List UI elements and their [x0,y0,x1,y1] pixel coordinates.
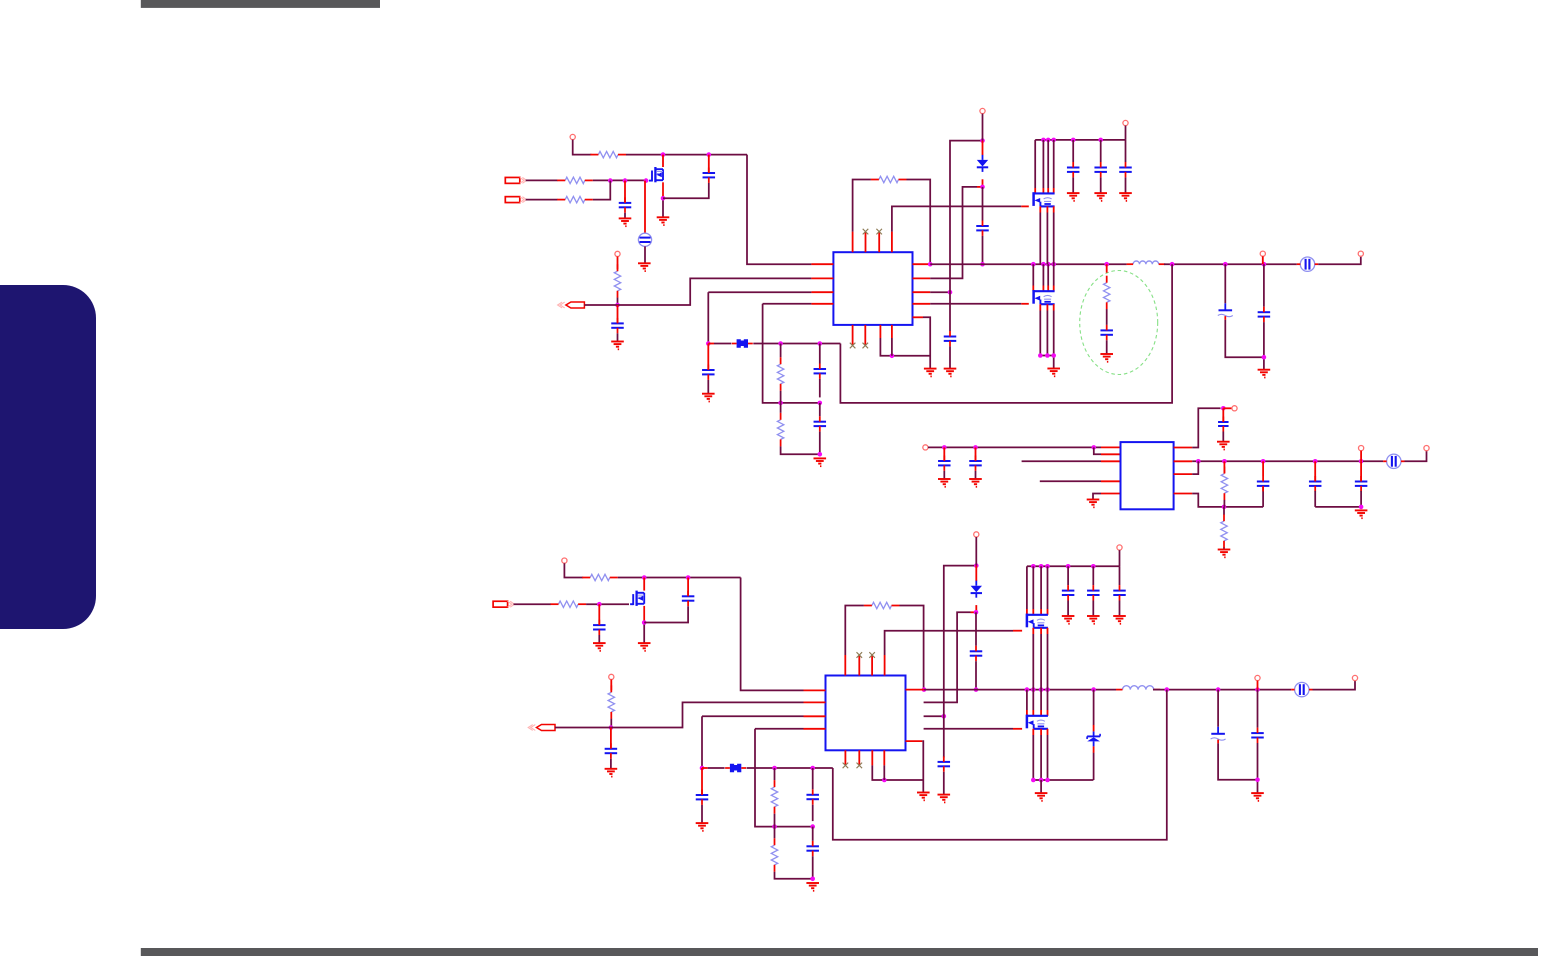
capacitor C6 [1067,167,1080,169]
junction [706,341,711,346]
inductor L1 [1133,261,1159,264]
lead [1026,710,1028,716]
node VOUT3 pin [1352,675,1357,680]
wire [774,814,776,827]
capacitor C5 (boot) [976,225,989,227]
wire [982,187,984,221]
pin stub [871,750,873,765]
diode D1 [977,160,988,167]
wire EN2 [555,702,804,727]
wire [1224,264,1226,303]
lead [1257,681,1259,690]
pin stub [1101,493,1121,495]
pin stub [1174,493,1193,495]
lead [617,257,619,270]
resistor R1 [598,151,618,157]
wire [617,298,619,305]
wire drain bus [1032,690,1034,710]
inductor L2 [1123,686,1154,690]
junction [661,152,666,157]
capacitor C4 [944,336,957,338]
wire HGATE1 [892,206,1021,231]
wire [644,606,688,622]
capacitor C14 [814,421,827,423]
pin stub [844,750,846,765]
drain lead [662,155,664,167]
pin stub [858,655,860,676]
port EN2 [537,725,556,731]
junction [772,766,777,771]
transistor Q2 [1032,192,1035,206]
wire gnd2 rail [1192,494,1263,507]
lead [1032,729,1034,735]
transistor Q6 [1026,715,1029,729]
wire [853,180,871,232]
wire VOUT1 rail [1164,263,1297,265]
wire [708,767,725,769]
pin stub [811,303,833,305]
node VIN3 pin [562,558,567,563]
wire [1119,550,1121,566]
junction [928,262,933,267]
capacitor C1 [619,202,632,204]
cap lead [687,578,689,597]
resistor R14 [872,602,892,608]
junction [980,138,985,143]
node VLDO pin [1232,406,1237,411]
wire VIN1 bus rail [1035,139,1125,141]
junction [1041,138,1046,143]
ground [1087,615,1100,617]
capacitor C13 [814,368,827,370]
wire [1033,779,1093,781]
ground [1251,792,1264,794]
node VIN3C pin [1117,545,1122,550]
wire [975,661,977,689]
ground [806,882,819,884]
wire VOUT2 rail [1192,460,1361,462]
ground [1035,792,1048,794]
wire BOOT2 [924,612,971,702]
wire VIN3 rail [618,577,741,579]
junction [615,303,620,308]
no-connect [843,763,849,769]
resistor R7 [777,364,783,384]
wire [975,537,977,566]
capacitor C20 [593,624,606,626]
junction [818,401,823,406]
junction [1046,138,1051,143]
node VOUT3B pin [1255,675,1260,680]
wire drain bus [1040,566,1042,609]
wire source bus [1040,735,1042,780]
ground [1258,369,1271,371]
wire [1125,177,1127,193]
lead [943,447,945,461]
junction [661,196,666,201]
wire [1106,309,1108,325]
drain lead [643,578,645,591]
resistor R4 [614,271,620,291]
wire [775,872,813,879]
ground [593,642,606,644]
ground [917,792,930,794]
op-amp U3 (PWM controller) [826,676,906,751]
ground [1100,353,1113,355]
op-amp U1 (PWM controller) [833,252,912,325]
wire [1072,140,1074,162]
wire FB1 sense [840,264,1172,403]
lead [977,186,983,188]
pin stub [883,750,885,765]
wire SW1 rail [930,263,1126,265]
ground [969,478,982,480]
lead [982,141,984,155]
junction [1045,687,1050,692]
wire [610,719,612,728]
wire source bus [1053,311,1055,356]
capacitor C2 [703,172,716,174]
pin lead [624,181,626,203]
wire source bus [1047,634,1049,690]
node VIN1C pin [1123,120,1128,125]
junction [1046,262,1051,267]
node VIN2 pin [923,445,928,450]
port P1 [505,177,520,183]
junction [609,725,614,730]
wire [644,246,646,263]
ground [611,341,624,343]
wire [1094,447,1101,454]
junction [1031,778,1036,783]
pin stub [858,750,860,765]
pin stub [884,655,886,676]
resistor R15 [771,787,777,807]
wire drain bus [1047,140,1049,188]
wire [598,635,600,643]
capacitor C28 (bulk) [1211,733,1225,735]
lead [1053,188,1055,193]
pin stub [804,689,826,691]
junction [890,354,895,359]
pin stub [913,263,931,265]
junction [1262,355,1267,360]
junction [1221,406,1226,411]
wire [1217,690,1219,727]
wire [949,346,951,368]
junction [1041,262,1046,267]
junction [608,178,613,183]
junction [980,262,985,267]
resistor R6 (snubber) [1104,283,1110,303]
junction [1165,687,1170,692]
capacitor C21 [682,595,695,597]
port P2 [505,197,520,203]
wire [701,716,703,768]
lead [1042,188,1044,193]
junction [1104,262,1109,267]
wire [526,179,558,181]
capacitor C19 [1309,481,1322,483]
wire [1092,566,1094,585]
wire [907,180,931,265]
lead [1262,256,1264,264]
capacitor C8 [1119,167,1132,169]
wire [1119,601,1121,617]
wire [707,380,709,394]
lead [1047,729,1049,735]
wire [774,768,776,780]
lead [1039,206,1041,212]
pin stub [906,740,923,742]
resistor R8 [777,420,783,440]
capacitor C32 [806,845,819,847]
wire [610,759,612,769]
op-amp U2 (LDO) [1121,442,1174,509]
resistor R12 [559,601,579,607]
junction [1091,687,1096,692]
pin stub [811,277,833,279]
wire [975,612,977,646]
junction [1098,138,1103,143]
junction [778,401,783,406]
no-connect [869,652,875,658]
feedthrough FB1 [1300,257,1314,271]
wire VOUT3 rail [1153,689,1291,691]
left navy tab [0,285,96,629]
lead [1039,304,1041,310]
node VIN1 pin [570,134,575,139]
junction [623,178,628,183]
lead [1047,628,1049,634]
wire [1263,322,1265,370]
junction [810,824,815,829]
junction [686,575,691,580]
junction [707,152,712,157]
ground [638,642,651,644]
junction [1045,353,1050,358]
wire [573,140,592,155]
ferrite bead FB2 [737,339,748,347]
pin stub [871,655,873,676]
lead [1047,188,1049,193]
junction [1222,505,1227,510]
diode D2 [971,586,982,593]
lead [610,680,612,691]
pin stub [804,701,826,703]
ground [619,217,632,219]
wire HGATE2 [885,631,1013,655]
lead [1053,304,1055,310]
pin lead [644,181,646,234]
transistor Q3 [1032,290,1035,304]
junction [1051,138,1056,143]
wire [617,333,619,341]
wire [1040,356,1053,369]
node EN1 pin [615,251,620,256]
junction [810,877,815,882]
junction [942,445,947,450]
wire [982,114,984,141]
junction [948,290,953,295]
wire [1257,743,1259,793]
lead [1040,710,1042,716]
wire [1093,690,1095,726]
wire [780,344,782,358]
ground [1094,192,1107,194]
junction [1045,564,1050,569]
lead [1223,407,1232,409]
wire [1067,601,1069,617]
capacitor C31 [806,794,819,796]
feedthrough FB4 [1295,682,1309,696]
cap lead [598,604,600,625]
node VIN1B pin [980,108,985,113]
ground [605,768,618,770]
wire LGATE1 [930,303,1021,305]
pin stub [1174,473,1193,475]
lead [1360,451,1362,462]
junction [818,452,823,457]
wire source bus [1040,634,1042,690]
lead [1040,729,1042,735]
wire [747,767,833,769]
wire [943,471,945,479]
capacitor C29 [1251,732,1264,734]
lead [1262,461,1264,476]
capacitor C23 [938,761,951,763]
pin stub [1101,446,1121,448]
wire LGATE2 [924,728,1013,730]
wire drain bus [1040,690,1042,710]
gate lead [1013,728,1022,730]
lead [1360,461,1362,481]
wire [774,827,776,839]
wire [1092,601,1094,617]
wire BOOT1 [930,187,977,279]
wire [1040,780,1042,793]
wire stub [1040,480,1101,482]
junction [1066,564,1071,569]
pin stub [844,655,846,676]
cap lead [708,155,710,173]
wire gnd pins [891,338,893,356]
lead [1053,286,1055,292]
ground [1113,615,1126,617]
junction [1039,564,1044,569]
wire source [662,182,664,198]
gate lead [1021,303,1029,305]
pin stub [1101,480,1121,482]
wire gnd pins [883,765,885,780]
resistor R16 [771,845,777,865]
lead [971,611,977,613]
wire [1100,177,1102,193]
lead [1040,609,1042,615]
junction [644,178,649,183]
wire [924,715,944,717]
diode D3 (schottky) [1087,735,1100,737]
node EN2 pin [609,674,614,679]
wire drain bus [1032,264,1034,285]
wire [1192,461,1198,474]
wire pin5 [923,317,930,368]
capacitor C26 [1087,590,1100,592]
lead [1042,286,1044,292]
wire [1218,743,1257,780]
junction [1196,459,1201,464]
capacitor C9 (snubber) [1100,329,1113,331]
node VOUT2B pin [1424,446,1429,451]
junction [1255,687,1260,692]
junction [700,766,705,771]
ground [638,262,651,264]
capacitor C16 [969,460,982,462]
lead [1053,206,1055,212]
wire [1106,340,1108,354]
no-connect [857,763,863,769]
junction [882,778,887,783]
pin stub [913,291,931,293]
lead [1222,408,1224,422]
junction [1359,459,1364,464]
no-connect [863,229,869,235]
ground [702,393,715,395]
pin stub [811,263,833,265]
no-connect [863,343,869,349]
wire [781,446,820,454]
top gray bar [141,0,380,8]
resistor R9 [1221,474,1227,494]
pin stub [891,325,893,338]
pin stub [891,232,893,253]
capacitor C30 [696,794,709,796]
resistor R11 [590,574,610,580]
transistor Q4 [632,594,634,605]
junction [810,766,815,771]
pin stub [1174,447,1193,449]
wire [845,606,864,656]
pin stub [913,303,931,305]
wire [1405,451,1427,462]
wire drain bus [1053,264,1055,285]
junction [1051,353,1056,358]
lead [982,179,984,187]
wire SW2 rail [924,689,1116,691]
wire [819,432,821,455]
wire stub [1022,460,1101,462]
pin stub [878,232,880,253]
lead [975,605,977,612]
ground [1119,192,1132,194]
wire [753,343,840,345]
junction [597,602,602,607]
wire [1315,506,1361,508]
wire [1093,753,1095,780]
lead [1047,286,1049,292]
ground [938,478,951,480]
wire drain bus [1026,566,1028,609]
wire [812,768,814,789]
junction [1038,353,1043,358]
lead [1032,609,1034,615]
pin stub [804,728,826,730]
wire [780,391,782,403]
capacitor C17 [1218,421,1229,423]
wire VIN sense [950,141,983,331]
wire [1223,500,1225,507]
wire [930,291,950,293]
